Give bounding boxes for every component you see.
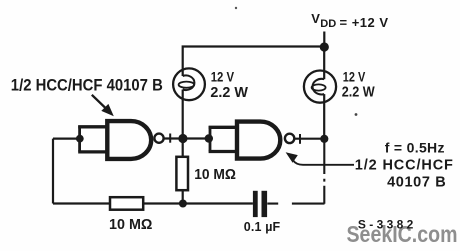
net label VDD = +12 V bbox=[311, 11, 388, 30]
svg-text:DD: DD bbox=[320, 18, 336, 30]
value label 12V 2.2W (right lamp) bbox=[342, 69, 375, 101]
lamp LP1 (left, 12V 2.2W) bbox=[173, 68, 205, 100]
wire U2 input tie bar bbox=[209, 126, 212, 151]
wire R1 to bottom node bbox=[182, 190, 184, 203]
node U2 input junction bbox=[205, 134, 213, 142]
label 1/2 HCC/HCF 40107B (right gate) bbox=[355, 158, 453, 191]
U2 output bubble bbox=[285, 134, 294, 143]
value label 12V 2.2W (left lamp) bbox=[210, 69, 248, 101]
node U1 input junction bbox=[76, 135, 84, 143]
wire U1 input tie bar bbox=[78, 126, 81, 152]
resistor R1 10M vertical bbox=[176, 157, 188, 190]
speck bbox=[235, 7, 237, 9]
svg-text:12 V: 12 V bbox=[211, 69, 235, 85]
wire feedback into U1 inputs bbox=[53, 138, 80, 140]
arrow to left gate bbox=[92, 95, 114, 117]
node B junction (bottom of R1) bbox=[179, 200, 187, 208]
NAND gate U2 body bbox=[237, 122, 280, 159]
tick mark on U2 output bbox=[299, 134, 301, 144]
wire lamp LP1 to node A bbox=[182, 90, 184, 140]
wire capacitor to node C (dashed) bbox=[267, 203, 324, 205]
svg-text:10 MΩ: 10 MΩ bbox=[109, 217, 153, 233]
wire node C down (dash-dot) bbox=[323, 139, 325, 174]
lamp LP2 (right, 12V 2.2W) bbox=[304, 47, 336, 139]
wire U1 input stubs bbox=[78, 127, 106, 152]
svg-text:= +12 V: = +12 V bbox=[340, 15, 389, 30]
svg-text:2.2 W: 2.2 W bbox=[210, 85, 248, 101]
svg-text:12 V: 12 V bbox=[343, 69, 366, 85]
wire bottom net bbox=[53, 202, 253, 204]
svg-text:0.1 µF: 0.1 µF bbox=[244, 220, 281, 234]
wire U2 input stubs bbox=[209, 127, 237, 151]
leader line with arrow to U2 output bbox=[286, 152, 354, 165]
node C junction (output) bbox=[320, 135, 328, 143]
node VDD junction bbox=[320, 42, 329, 51]
svg-text:f = 0.5Hz: f = 0.5Hz bbox=[385, 140, 445, 156]
wire U2 output to node C bbox=[294, 138, 324, 140]
capacitor C1 plates bbox=[253, 191, 258, 217]
speck bbox=[355, 113, 358, 116]
wire U1 output to node A bbox=[164, 137, 210, 139]
U1 output bubble bbox=[154, 134, 163, 143]
svg-text:V: V bbox=[311, 11, 320, 26]
svg-text:2.2 W: 2.2 W bbox=[342, 85, 375, 101]
tick mark on U1 output bbox=[169, 134, 171, 143]
svg-text:1/2 HCC/HCF: 1/2 HCC/HCF bbox=[355, 158, 453, 174]
wire feedback left vertical bbox=[52, 139, 54, 204]
svg-text:1/2 HCC/HCF 40107 B: 1/2 HCC/HCF 40107 B bbox=[11, 75, 163, 94]
resistor R2 10M horizontal bbox=[110, 197, 143, 210]
wire node A to resistor R1 bbox=[182, 139, 184, 157]
svg-text:10 MΩ: 10 MΩ bbox=[194, 167, 236, 183]
node A junction bbox=[178, 134, 187, 143]
svg-text:40107 B: 40107 B bbox=[387, 174, 446, 190]
NAND gate U1 body bbox=[107, 121, 151, 159]
wire VDD rail bbox=[183, 32, 325, 77]
